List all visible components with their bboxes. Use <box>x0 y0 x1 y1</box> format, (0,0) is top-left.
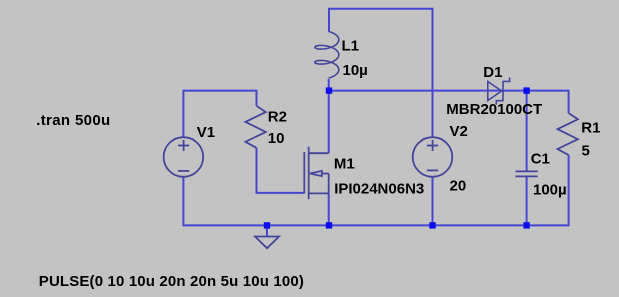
voltage source V1 <box>164 137 204 177</box>
svg-text:V1: V1 <box>197 124 215 141</box>
wire <box>526 91 528 172</box>
svg-text:IPI024N06N3: IPI024N06N3 <box>334 181 424 198</box>
diode D1 <box>488 77 510 104</box>
node junction <box>523 222 529 228</box>
inductor L1 <box>315 31 339 78</box>
svg-text:R1: R1 <box>581 119 600 136</box>
node junction <box>429 222 435 228</box>
svg-text:C1: C1 <box>531 150 550 167</box>
svg-text:R2: R2 <box>268 108 287 125</box>
node junction <box>523 87 529 93</box>
svg-text:10µ: 10µ <box>343 62 368 79</box>
svg-text:20: 20 <box>450 177 467 194</box>
capacitor C1 <box>515 171 537 176</box>
svg-text:PULSE(0 10 10u 20n 20n 5u 10u: PULSE(0 10 10u 20n 20n 5u 10u 100) <box>39 273 304 290</box>
wire <box>183 91 256 138</box>
wire <box>432 177 434 226</box>
wire <box>266 225 268 236</box>
wire <box>257 148 305 193</box>
wire <box>183 155 568 225</box>
wire <box>328 91 569 114</box>
wire <box>329 9 433 138</box>
svg-text:5: 5 <box>582 143 590 160</box>
svg-text:M1: M1 <box>334 155 355 172</box>
node junction <box>264 222 270 228</box>
wire <box>526 176 528 225</box>
svg-text:V2: V2 <box>450 123 468 140</box>
svg-text:100µ: 100µ <box>533 182 567 199</box>
svg-text:.tran 500u: .tran 500u <box>36 112 110 129</box>
transistor M1 <box>304 147 328 199</box>
node junction <box>326 87 332 93</box>
svg-text:D1: D1 <box>483 64 502 81</box>
resistor R2 <box>245 106 265 148</box>
wire <box>328 91 330 154</box>
svg-text:10: 10 <box>268 130 285 147</box>
wire <box>328 193 330 225</box>
voltage source V2 <box>413 137 453 177</box>
svg-text:L1: L1 <box>342 38 360 55</box>
node junction <box>326 222 332 228</box>
resistor R1 <box>558 113 578 155</box>
ground <box>255 237 279 249</box>
svg-text:MBR20100CT: MBR20100CT <box>446 101 542 118</box>
wire <box>328 79 330 91</box>
